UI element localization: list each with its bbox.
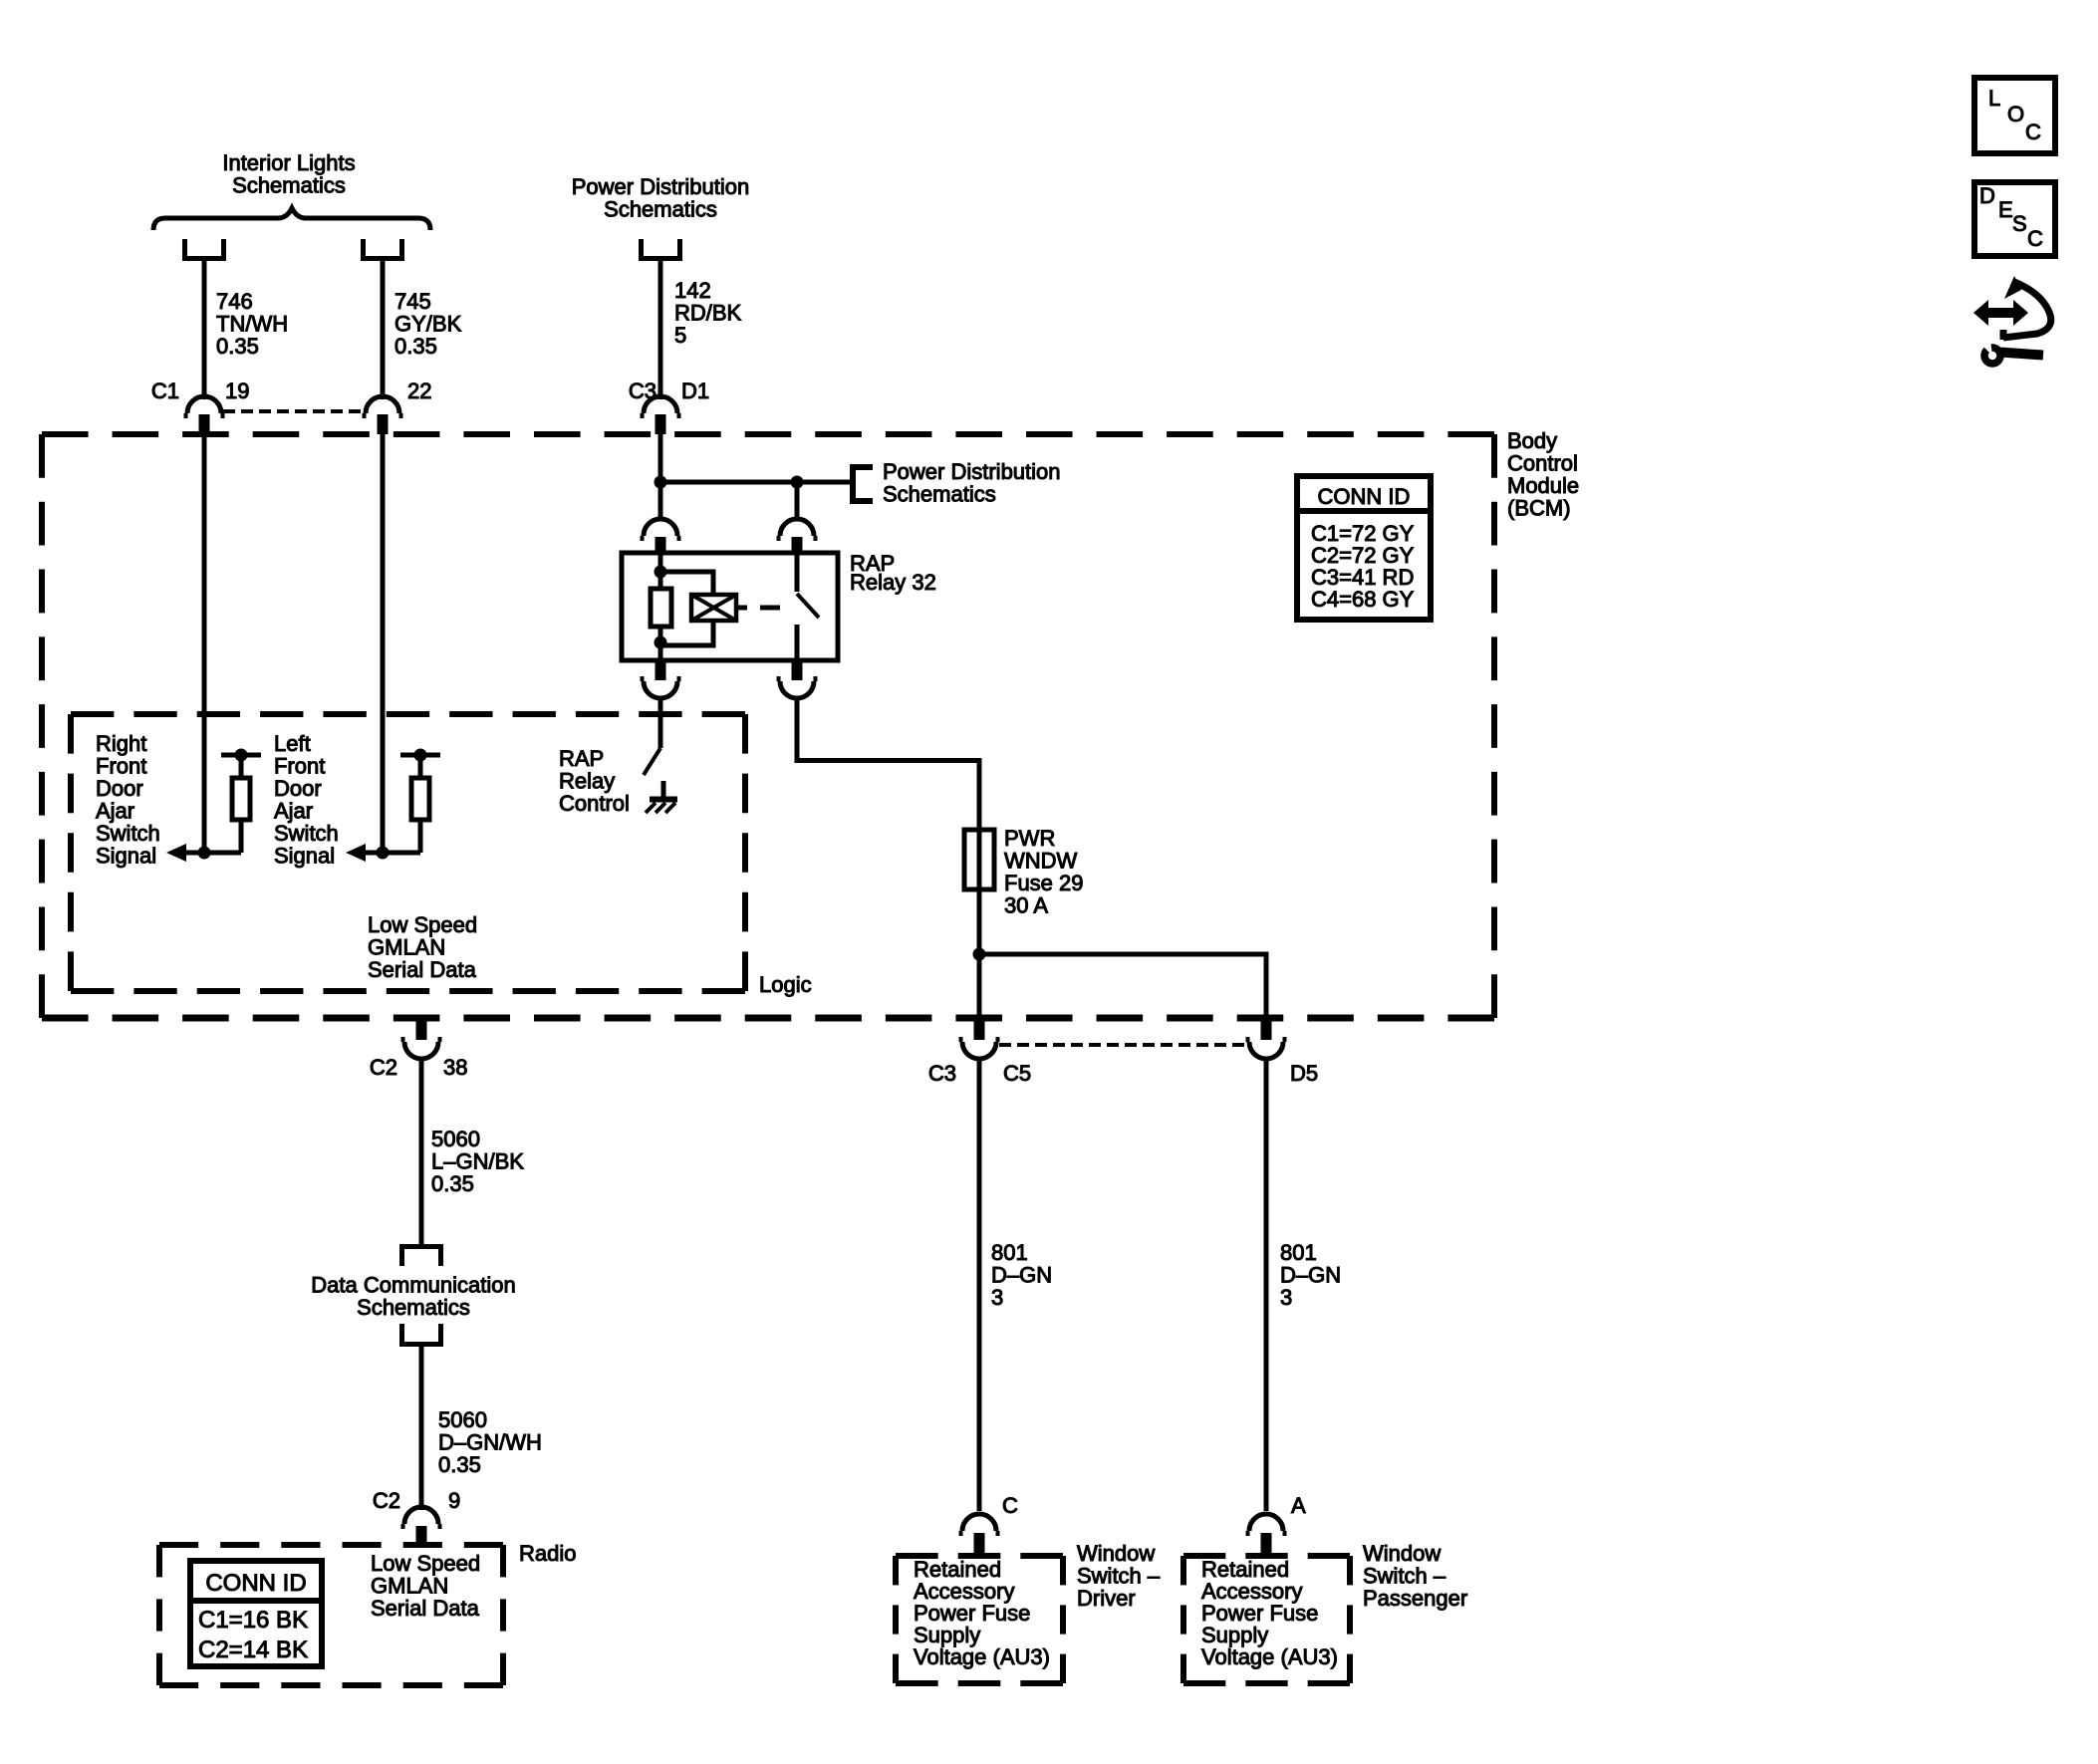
suppressor box with X	[691, 595, 736, 621]
off-page connector Interior Lights right	[364, 239, 402, 259]
relay linkage dashed	[736, 606, 747, 611]
off-page connector Power Distribution	[642, 239, 680, 259]
label 746 TN/WH 0.35	[216, 289, 288, 359]
svg-text:E: E	[1998, 197, 2013, 222]
label Left Front Door Ajar Switch Signal	[274, 731, 339, 869]
wire C5 down	[977, 954, 982, 1018]
connector C2 38	[416, 1017, 427, 1040]
relay coil wire bottom	[658, 627, 663, 660]
svg-text:PWR: PWR	[1004, 826, 1055, 851]
svg-text:Schematics: Schematics	[357, 1295, 470, 1320]
svg-text:Data Communication: Data Communication	[311, 1273, 515, 1298]
svg-text:Window: Window	[1077, 1541, 1155, 1566]
label RAP Relay 32	[850, 551, 936, 595]
svg-text:(BCM): (BCM)	[1507, 496, 1571, 521]
label Power Distribution Schematics tap	[883, 459, 1061, 507]
label 5060 L-GN/BK 0.35	[431, 1127, 524, 1196]
window switch driver box	[896, 1556, 1063, 1683]
off-page connector Interior Lights left	[185, 239, 224, 259]
resistor left front lead up	[418, 755, 423, 778]
svg-text:38: 38	[443, 1055, 467, 1080]
connector C1 pin 19	[187, 396, 221, 413]
svg-text:L: L	[1988, 86, 2000, 111]
wire 5060 D-GN/WH	[419, 1345, 424, 1511]
svg-text:C3: C3	[928, 1061, 956, 1086]
svg-text:D1: D1	[681, 378, 709, 403]
wire D1 into BCM	[658, 434, 663, 517]
svg-text:CONN ID: CONN ID	[1318, 484, 1411, 509]
connector below relay switch side	[792, 660, 803, 680]
svg-text:D–GN: D–GN	[991, 1263, 1052, 1288]
label 5060 D-GN/WH 0.35	[438, 1407, 542, 1477]
fuse PWR WNDW Fuse 29	[964, 830, 994, 889]
connector A passenger	[1249, 1514, 1283, 1531]
svg-text:801: 801	[1280, 1240, 1317, 1265]
wire to power distribution tap	[660, 480, 852, 485]
radio dashed box	[159, 1545, 503, 1685]
BCM CONN ID table	[1297, 476, 1431, 620]
wire pin19 down to arrow	[202, 434, 207, 853]
svg-text:Serial Data: Serial Data	[371, 1596, 480, 1621]
svg-text:Signal: Signal	[96, 844, 156, 869]
RAP relay control switch blade	[644, 748, 660, 775]
svg-text:Logic: Logic	[759, 972, 812, 997]
svg-text:Serial Data: Serial Data	[368, 957, 477, 982]
junction at 663,484	[655, 476, 667, 489]
svg-text:Door: Door	[274, 776, 322, 801]
svg-text:D–GN: D–GN	[1280, 1263, 1341, 1288]
svg-text:5060: 5060	[431, 1127, 480, 1151]
svg-text:Signal: Signal	[274, 844, 335, 869]
label Window Switch Driver	[1077, 1541, 1161, 1611]
connector C driver	[962, 1514, 996, 1531]
svg-text:0.35: 0.35	[431, 1171, 474, 1196]
wire 142	[658, 259, 663, 400]
svg-text:C2=14 BK: C2=14 BK	[198, 1637, 308, 1663]
relay switch contact top	[795, 555, 800, 592]
svg-text:142: 142	[674, 278, 711, 303]
relay coil wire top	[658, 555, 663, 589]
svg-text:Control: Control	[1507, 451, 1578, 476]
label Low Speed GMLAN Serial Data radio	[371, 1551, 480, 1621]
svg-text:3: 3	[991, 1285, 1003, 1310]
right front arrowhead	[166, 844, 186, 862]
svg-text:Power Distribution: Power Distribution	[883, 459, 1061, 484]
radio CONN ID table	[190, 1561, 322, 1666]
label Right Front Door Ajar Switch Signal	[96, 731, 160, 869]
label Data Communication Schematics	[311, 1273, 515, 1321]
wire 801 left	[977, 1058, 982, 1511]
svg-text:D5: D5	[1290, 1061, 1318, 1086]
resistor right front	[232, 778, 250, 820]
svg-text:O: O	[2007, 102, 2024, 126]
label RAP Relay Control	[559, 746, 630, 816]
svg-text:Interior Lights: Interior Lights	[222, 150, 355, 175]
left front arrow line	[359, 851, 420, 856]
svg-text:RD/BK: RD/BK	[674, 301, 742, 326]
junction at 800,484	[791, 476, 804, 489]
icon DESC box	[1974, 182, 2055, 256]
icon LOC box	[1974, 78, 2055, 153]
off-page bracket Power Distribution tap	[853, 467, 873, 501]
label Window Switch Passenger	[1363, 1541, 1467, 1611]
wire pin22 down to arrow	[381, 434, 386, 853]
off-page connector to Data Communication	[402, 1247, 441, 1267]
svg-text:Left: Left	[274, 731, 311, 756]
svg-text:C: C	[1002, 1493, 1018, 1518]
svg-text:Relay 32: Relay 32	[850, 570, 936, 595]
label Interior Lights Schematics	[222, 150, 355, 198]
connector C3 pin D1	[644, 396, 677, 413]
svg-text:C2: C2	[373, 1488, 400, 1513]
svg-text:L–GN/BK: L–GN/BK	[431, 1149, 524, 1174]
svg-text:Schematics: Schematics	[604, 197, 717, 222]
svg-text:19: 19	[225, 378, 249, 403]
svg-text:Control: Control	[559, 791, 630, 816]
junction T left front	[414, 749, 427, 762]
label PWR WNDW Fuse 29 30 A	[1004, 826, 1084, 918]
label 745 GY/BK 0.35	[394, 289, 462, 359]
connector D5	[1261, 1017, 1272, 1040]
resistor left front lead down	[418, 820, 423, 853]
svg-text:5: 5	[674, 323, 686, 348]
svg-text:Power Distribution: Power Distribution	[572, 174, 750, 199]
svg-text:Schematics: Schematics	[232, 173, 346, 198]
svg-text:3: 3	[1280, 1285, 1292, 1310]
svg-text:S: S	[2012, 211, 2027, 236]
wire branch to D5	[979, 954, 1266, 1018]
svg-text:801: 801	[991, 1240, 1028, 1265]
T stub right front	[221, 753, 261, 758]
connector arc relay coil input	[644, 519, 677, 536]
svg-text:C: C	[2027, 226, 2043, 251]
window switch passenger box	[1183, 1556, 1350, 1683]
off-page connector from Data Communication	[402, 1324, 441, 1345]
svg-text:9: 9	[448, 1488, 460, 1513]
svg-text:30 A: 30 A	[1004, 893, 1048, 918]
svg-text:Ajar: Ajar	[96, 799, 134, 824]
suppressor loop wires	[660, 572, 713, 595]
svg-text:Fuse 29: Fuse 29	[1004, 871, 1084, 895]
svg-text:Window: Window	[1363, 1541, 1441, 1566]
dashed link C5 to D5	[999, 1043, 1247, 1047]
svg-text:GMLAN: GMLAN	[368, 935, 445, 960]
svg-text:Ajar: Ajar	[274, 799, 313, 824]
label Retained Accessory Power Fuse Supply Voltage passenger	[1201, 1557, 1338, 1669]
svg-text:Switch: Switch	[96, 821, 160, 846]
relay RAP Relay 32 box	[622, 553, 838, 660]
svg-text:C: C	[2025, 120, 2041, 144]
svg-text:Switch –: Switch –	[1077, 1564, 1161, 1589]
junction arrow 1	[198, 847, 211, 860]
svg-text:Door: Door	[96, 776, 143, 801]
label 801 D-GN 3 left	[991, 1240, 1052, 1310]
ground	[646, 781, 677, 813]
junction arrow 2	[377, 847, 390, 860]
svg-text:D: D	[1979, 183, 1995, 208]
right front arrow line	[179, 851, 241, 856]
connector C2 9	[404, 1507, 438, 1524]
wire relay switch to fuse	[797, 697, 979, 830]
svg-text:Passenger: Passenger	[1363, 1586, 1467, 1611]
relay coil	[651, 589, 671, 627]
resistor left front	[411, 778, 429, 820]
svg-text:0.35: 0.35	[216, 334, 259, 359]
connector C3 C5	[974, 1017, 985, 1040]
connector arc relay switch input	[780, 519, 814, 536]
svg-text:WNDW: WNDW	[1004, 849, 1078, 874]
svg-text:C1: C1	[151, 378, 179, 403]
svg-text:745: 745	[394, 289, 431, 314]
svg-text:Front: Front	[96, 754, 146, 779]
svg-text:746: 746	[216, 289, 253, 314]
svg-text:Body: Body	[1507, 428, 1557, 453]
svg-text:Radio: Radio	[519, 1541, 576, 1566]
svg-text:Switch: Switch	[274, 821, 339, 846]
fuse wire inner	[977, 830, 982, 954]
svg-text:Driver: Driver	[1077, 1586, 1136, 1611]
BCM dashed box	[42, 434, 1494, 1018]
svg-text:Right: Right	[96, 731, 146, 756]
wire RAP relay control	[658, 697, 663, 748]
left front arrowhead	[346, 844, 366, 862]
svg-text:5060: 5060	[438, 1407, 487, 1432]
svg-text:Low Speed: Low Speed	[368, 912, 477, 937]
junction T right front	[235, 749, 248, 762]
wire 746	[202, 259, 207, 400]
T stub left front	[400, 753, 440, 758]
svg-text:C4=68 GY: C4=68 GY	[1311, 587, 1415, 612]
svg-text:Voltage (AU3): Voltage (AU3)	[914, 1644, 1050, 1669]
label 801 D-GN 3 right	[1280, 1240, 1341, 1310]
label Body Control Module (BCM)	[1507, 428, 1579, 521]
svg-text:C5: C5	[1003, 1061, 1031, 1086]
svg-text:Voltage (AU3): Voltage (AU3)	[1201, 1644, 1338, 1669]
connector below relay coil side	[656, 660, 666, 680]
svg-text:A: A	[1291, 1493, 1306, 1518]
svg-text:Module: Module	[1507, 473, 1579, 498]
label 142 RD/BK 5	[674, 278, 742, 348]
svg-text:22: 22	[407, 378, 431, 403]
label Retained Accessory Power Fuse Supply Voltage driver	[914, 1557, 1050, 1669]
svg-text:Schematics: Schematics	[883, 482, 996, 507]
svg-text:RAP: RAP	[559, 746, 604, 771]
label Low Speed GMLAN Serial Data BCM	[368, 912, 477, 982]
svg-text:Low Speed: Low Speed	[371, 1551, 480, 1576]
svg-text:GY/BK: GY/BK	[394, 312, 462, 337]
svg-text:Relay: Relay	[559, 769, 615, 794]
svg-text:D–GN/WH: D–GN/WH	[438, 1430, 542, 1455]
svg-text:C2: C2	[370, 1055, 397, 1080]
relay switch blade	[797, 594, 819, 618]
connector pin 22	[366, 396, 399, 413]
svg-text:GMLAN: GMLAN	[371, 1574, 448, 1599]
svg-text:0.35: 0.35	[438, 1452, 481, 1477]
junction coil bottom	[655, 636, 667, 649]
svg-text:Front: Front	[274, 754, 325, 779]
svg-text:TN/WH: TN/WH	[216, 312, 288, 337]
svg-text:0.35: 0.35	[394, 334, 437, 359]
relay switch contact bottom	[795, 625, 800, 660]
resistor right front lead up	[239, 755, 244, 778]
dashed link pin19 to pin22	[223, 409, 364, 413]
label Power Distribution Schematics top	[572, 174, 750, 222]
wire relay switch branch	[795, 482, 800, 517]
logic dashed box	[71, 714, 745, 991]
svg-text:C1=16 BK: C1=16 BK	[198, 1607, 308, 1634]
wire 801 right	[1264, 1058, 1269, 1511]
wire 5060 L-GN/BK	[419, 1058, 424, 1244]
resistor right front lead down	[239, 820, 244, 853]
junction below fuse	[973, 948, 986, 961]
icon navigation arrow and wrench	[1973, 276, 2051, 364]
svg-text:Switch –: Switch –	[1363, 1564, 1446, 1589]
svg-text:CONN ID: CONN ID	[205, 1570, 306, 1597]
wire 745	[381, 259, 386, 400]
brace Interior Lights	[153, 208, 430, 230]
junction coil top	[655, 566, 667, 579]
